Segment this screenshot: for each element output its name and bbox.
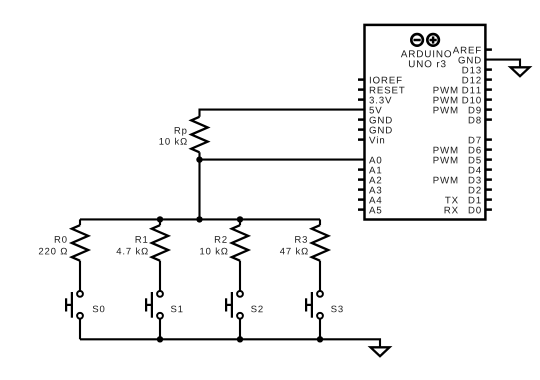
- label R2: [215, 236, 227, 243]
- label R1: [136, 236, 148, 243]
- resistor R0: [72, 225, 88, 261]
- wire GND pin to ground: [485, 60, 520, 68]
- resistor R3: [312, 225, 328, 261]
- wire top bus to resistor R3: [319, 219, 321, 225]
- pin D6 (right): [433, 147, 491, 154]
- pin A5 (left): [358, 207, 381, 214]
- wire switch S1 to bottom bus: [159, 319, 161, 340]
- pin GND (right): [458, 57, 480, 64]
- label S1: [171, 306, 183, 313]
- pin D0 (right): [445, 207, 492, 214]
- wire switch S2 to bottom bus: [239, 319, 241, 340]
- pin A4 (left): [358, 197, 381, 204]
- label 47 kΩ (R3 value): [280, 248, 308, 255]
- pin IOREF (left): [358, 77, 402, 84]
- resistor R1: [152, 225, 168, 261]
- label R0: [55, 236, 67, 243]
- label ARDUINO: [401, 50, 451, 57]
- pin AREF (right): [453, 47, 492, 54]
- label R3: [295, 236, 307, 243]
- pin D4 (right): [469, 167, 492, 174]
- label 10 kΩ (R2 value): [200, 248, 227, 255]
- pin 5V (left): [369, 107, 381, 114]
- label S2: [251, 306, 263, 313]
- label UNO r3: [409, 60, 446, 67]
- wire node down to top bus: [198, 160, 200, 220]
- pin A2 (left): [358, 177, 381, 184]
- pin GND (left): [358, 127, 392, 134]
- pin RESET (left): [358, 87, 405, 94]
- pin D3 (right): [433, 177, 491, 184]
- wire resistor R3 to switch S3: [319, 261, 321, 291]
- pin 3.3V (left): [358, 97, 391, 104]
- junction dot bottom bus at S2: [237, 336, 243, 342]
- label 10 kΩ (Rp value): [159, 138, 186, 145]
- ground (right of Arduino): [511, 67, 530, 76]
- pin D8 (right): [469, 117, 492, 124]
- pin D7 (right): [469, 137, 492, 144]
- pin D13 (right): [463, 67, 492, 74]
- wire switch S0 to bottom bus: [79, 319, 81, 340]
- pin D9 (right): [433, 107, 491, 114]
- label S0: [93, 306, 105, 313]
- node A0 junction dot: [196, 156, 202, 162]
- switch S3 (pushbutton): [306, 291, 323, 319]
- label Rp: [175, 127, 187, 136]
- resistor R2: [232, 225, 248, 261]
- wire bottom bus to ground: [80, 339, 380, 347]
- wire top bus to resistor R2: [239, 219, 241, 225]
- pin A3 (left): [358, 187, 381, 194]
- wire resistor R1 to switch S1: [159, 261, 161, 291]
- wire top bus to resistor R0: [79, 219, 81, 225]
- switch S1 (pushbutton): [146, 291, 163, 319]
- pin Vin (left): [358, 136, 384, 143]
- pin D10 (right): [433, 97, 491, 104]
- pin D1 (right): [445, 197, 492, 204]
- switch S2 (pushbutton): [226, 291, 243, 319]
- wire top bus: [80, 218, 320, 220]
- switch S0 (pushbutton): [66, 291, 83, 319]
- wire node to A0: [200, 159, 365, 161]
- label 220 Ω (R0 value): [39, 248, 67, 255]
- Arduino UNO box U1: [365, 25, 486, 220]
- ground (bottom): [371, 347, 390, 356]
- junction dot bottom bus at S1: [157, 336, 163, 342]
- junction dot top bus at Rp: [196, 216, 202, 222]
- wire resistor R2 to switch S2: [239, 261, 241, 291]
- junction dot top bus at R2: [237, 216, 243, 222]
- pin D5 (right): [433, 157, 491, 164]
- Arduino logo minus circle: [411, 34, 423, 46]
- pin GND (left): [358, 117, 392, 124]
- pin D12 (right): [463, 77, 492, 84]
- wire Rp bottom to node: [198, 152, 200, 159]
- label 4.7 kΩ (R1 value): [116, 248, 147, 255]
- wire top bus to resistor R1: [159, 219, 161, 225]
- wire resistor R0 to switch S0: [79, 261, 81, 291]
- pin A0 (left): [369, 157, 381, 164]
- pin D11 (right): [433, 87, 491, 94]
- wire switch S3 to bottom bus: [319, 319, 321, 340]
- wire 5V to Rp top: [200, 110, 365, 117]
- junction dot top bus at R1: [157, 216, 163, 222]
- label S3: [331, 306, 343, 313]
- pin A1 (left): [358, 167, 381, 174]
- Arduino logo plus circle: [427, 34, 439, 46]
- resistor Rp: [191, 117, 207, 153]
- pin D2 (right): [469, 187, 492, 194]
- junction dot bottom bus at S3: [317, 336, 323, 342]
